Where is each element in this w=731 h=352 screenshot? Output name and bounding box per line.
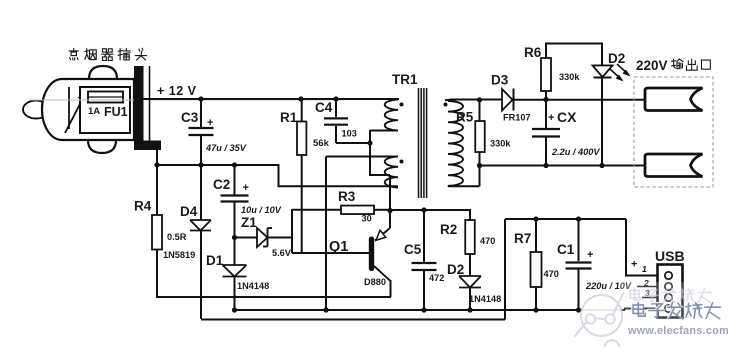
usb pin contact 2 bbox=[665, 283, 672, 290]
wire LED cathode drop bbox=[601, 78, 603, 166]
transistor Q1 collector lead with arrow bbox=[375, 228, 390, 241]
wire D2 bottom lead bbox=[469, 288, 471, 311]
transformer TR1 feedback winding bbox=[385, 157, 398, 188]
wire R7 top lead bbox=[535, 219, 537, 252]
wire usb section column bbox=[504, 219, 506, 320]
capacitor CX bbox=[532, 128, 560, 130]
resistor R4 bbox=[152, 215, 162, 250]
svg-text:10u / 10V: 10u / 10V bbox=[241, 205, 282, 215]
diode D2 small signal bbox=[459, 275, 481, 277]
svg-text:+: + bbox=[548, 112, 554, 124]
svg-text:FU1: FU1 bbox=[104, 105, 128, 119]
junction C2 top bbox=[232, 162, 237, 167]
wire C1 top lead bbox=[578, 219, 580, 261]
wire R1 bottom lead bbox=[301, 155, 303, 253]
wire C4 top lead bbox=[335, 99, 337, 117]
junction C5 top bbox=[421, 207, 426, 212]
watermark ghost glyphs bbox=[630, 288, 641, 300]
wire D4 top lead bbox=[200, 165, 202, 220]
svg-text:1N4148: 1N4148 bbox=[469, 294, 501, 304]
polarity dot feedback bbox=[400, 160, 404, 164]
wire R4 top lead bbox=[156, 165, 158, 215]
svg-text:TR1: TR1 bbox=[392, 72, 418, 87]
svg-text:C5: C5 bbox=[404, 242, 422, 257]
svg-text:+: + bbox=[587, 249, 593, 261]
svg-text:D1: D1 bbox=[206, 253, 224, 268]
transformer TR1 primary winding bbox=[385, 100, 398, 131]
capacitor C5 bbox=[412, 262, 437, 264]
svg-text:www.elecfans.com: www.elecfans.com bbox=[627, 325, 729, 337]
resistor R2 bbox=[465, 220, 475, 254]
plug top spring bump bbox=[89, 66, 117, 79]
svg-text:+: + bbox=[243, 182, 249, 194]
wire secondary top stub bbox=[445, 99, 450, 101]
wire C3 top lead bbox=[200, 99, 202, 127]
usb pin contact 1 bbox=[665, 272, 672, 279]
plug body bbox=[42, 79, 134, 140]
wire R3 left lead bbox=[292, 209, 341, 211]
plug internal contact arrow bbox=[68, 87, 70, 129]
svg-text:C2: C2 bbox=[213, 177, 230, 192]
wire tap to primary top winding bbox=[369, 130, 371, 143]
diode D1 bbox=[223, 264, 247, 266]
resistor R5 bbox=[475, 121, 485, 152]
junction R1 top bbox=[298, 96, 303, 101]
wire secondary to D3 bbox=[450, 99, 502, 101]
junction R6 CX top bbox=[543, 97, 548, 102]
outlet socket 2 bbox=[645, 154, 703, 177]
polarity dot secondary bbox=[444, 103, 448, 107]
capacitor C2 bbox=[221, 194, 249, 196]
junction C5 bottom bbox=[421, 307, 426, 312]
svg-text:R4: R4 bbox=[134, 199, 152, 214]
plug bottom spring bump bbox=[88, 140, 116, 153]
svg-text:C3: C3 bbox=[181, 110, 199, 125]
wire R5 bottom lead bbox=[479, 152, 481, 166]
faint scan hairline through plug bbox=[30, 99, 134, 101]
svg-text:56k: 56k bbox=[313, 138, 330, 149]
wire feedback top row bbox=[326, 156, 398, 158]
wire D1 top lead bbox=[234, 238, 236, 266]
wire collector row bbox=[390, 209, 470, 211]
wire R4 bottom lead bbox=[156, 250, 158, 299]
wire C1 bottom lead bbox=[578, 269, 580, 310]
zener diode Z1 bbox=[257, 228, 268, 247]
wire R1 body to base bbox=[301, 99, 303, 122]
wire usb top row bbox=[505, 218, 626, 220]
wire C3 bottom lead bbox=[200, 136, 202, 165]
watermark haze bbox=[620, 282, 731, 342]
wire tap to collector column bbox=[369, 174, 390, 176]
wire to feedback winding bottom bbox=[278, 185, 399, 187]
svg-text:0.5R: 0.5R bbox=[167, 232, 187, 242]
svg-text:47u / 35V: 47u / 35V bbox=[205, 143, 247, 153]
svg-text:1A: 1A bbox=[88, 106, 100, 117]
wire C2 top lead bbox=[234, 165, 236, 195]
svg-text:R3: R3 bbox=[338, 189, 356, 204]
wire base row bbox=[292, 252, 369, 254]
wire R5 top lead bbox=[479, 100, 481, 121]
wire Z1 anode lead bbox=[235, 237, 258, 239]
junction C1 bottom bbox=[576, 307, 581, 312]
junction collector node bbox=[387, 208, 392, 213]
svg-text:1N5819: 1N5819 bbox=[163, 250, 195, 260]
capacitor C3 bbox=[189, 127, 214, 129]
wire usb 5V drop bbox=[626, 219, 658, 276]
junction R7 top bbox=[533, 216, 538, 221]
svg-text:D4: D4 bbox=[180, 204, 198, 219]
wire R3 right lead bbox=[374, 209, 390, 211]
junction C3 top bbox=[198, 96, 203, 101]
junction R7 bottom bbox=[533, 307, 538, 312]
junction C1 top bbox=[576, 216, 581, 221]
junction zener node bbox=[232, 235, 237, 240]
plug center electrode bar bbox=[134, 66, 144, 150]
transformer TR1 secondary winding bbox=[448, 101, 463, 186]
watermark text 电子发烧友 bbox=[633, 302, 645, 316]
plug tip contact bbox=[23, 101, 49, 119]
svg-text:CX: CX bbox=[557, 109, 577, 125]
resistor R6 bbox=[541, 58, 551, 91]
wire R5 to secondary bottom bbox=[479, 166, 481, 187]
svg-text:R1: R1 bbox=[280, 110, 298, 125]
svg-text:D2: D2 bbox=[608, 51, 625, 66]
svg-text:220V: 220V bbox=[636, 58, 668, 73]
label 点烟器插头 (cigarette lighter plug) bbox=[69, 49, 78, 60]
wire ground rail lower bbox=[201, 319, 505, 321]
LED D2 bbox=[593, 65, 613, 67]
outlet socket 1 bbox=[645, 88, 703, 111]
watermark text 电子发烧友 emboss bbox=[632, 302, 644, 316]
svg-text:FR107: FR107 bbox=[503, 113, 531, 123]
junction C3 bottom bbox=[198, 162, 203, 167]
svg-text:330k: 330k bbox=[490, 139, 511, 149]
wire usb ground stub bbox=[625, 309, 658, 311]
wire +12V rail bbox=[143, 98, 399, 100]
wire emitter return bbox=[156, 296, 391, 298]
watermark logo circle bbox=[581, 295, 622, 336]
plug ground side contact foot bbox=[134, 141, 161, 151]
junction output low node bbox=[477, 163, 482, 168]
svg-text:R6: R6 bbox=[524, 45, 542, 60]
junction D2 bottom bbox=[467, 307, 472, 312]
svg-text:C4: C4 bbox=[315, 100, 333, 115]
capacitor C1 bbox=[566, 261, 592, 263]
usb connector body bbox=[658, 265, 683, 318]
diode D4 bbox=[190, 219, 211, 221]
wire C2 bottom lead bbox=[234, 202, 236, 238]
usb pin contact 3 bbox=[665, 294, 672, 301]
diode D3 bbox=[502, 89, 513, 111]
wire R7 bottom lead bbox=[535, 287, 537, 310]
svg-text:30: 30 bbox=[362, 214, 372, 224]
svg-text:1N4148: 1N4148 bbox=[237, 281, 269, 291]
svg-text:D2: D2 bbox=[447, 262, 464, 277]
wire output low rail bbox=[480, 165, 646, 167]
resistor R1 bbox=[297, 122, 306, 156]
wire feedback ground column bbox=[325, 157, 327, 311]
svg-text:D3: D3 bbox=[491, 73, 509, 88]
wire emitter drop bbox=[390, 280, 392, 297]
svg-text:D880: D880 bbox=[364, 277, 386, 287]
transistor Q1 emitter lead bbox=[374, 266, 391, 281]
wire C5 top lead bbox=[423, 210, 425, 262]
svg-text:+ 12 V: + 12 V bbox=[157, 84, 197, 98]
junction feedback column bottom bbox=[323, 307, 328, 312]
svg-text:R2: R2 bbox=[440, 222, 457, 237]
svg-text:+: + bbox=[631, 259, 637, 271]
svg-text:5.6V: 5.6V bbox=[272, 248, 292, 258]
svg-text:103: 103 bbox=[342, 129, 357, 139]
wire mid rail drop bbox=[278, 164, 280, 186]
svg-text:Q1: Q1 bbox=[329, 239, 348, 255]
svg-text:472: 472 bbox=[429, 273, 444, 283]
wire mid rail bbox=[157, 164, 278, 166]
usb pin 2 stub bbox=[637, 286, 658, 288]
junction CX bottom bbox=[543, 163, 548, 168]
svg-text:2.2u / 400V: 2.2u / 400V bbox=[551, 147, 600, 157]
transformer core bbox=[418, 88, 420, 198]
svg-text:Z1: Z1 bbox=[241, 215, 257, 230]
wire base column bbox=[291, 209, 293, 253]
faint scan hairline right of plug bbox=[150, 99, 345, 101]
wire C4 to tap node bbox=[336, 142, 370, 144]
dashed outlet box bbox=[634, 77, 713, 187]
wire secondary bottom stub bbox=[447, 185, 449, 188]
plug electrode side plate bbox=[149, 66, 151, 150]
svg-text:R7: R7 bbox=[514, 231, 531, 246]
capacitor C4 bbox=[324, 117, 348, 119]
wire R6 top bracket bbox=[546, 44, 602, 66]
fuse FU1 1A bbox=[88, 92, 123, 103]
wire Z1 cathode lead bbox=[268, 237, 293, 239]
wire R6 bottom lead bbox=[545, 91, 547, 100]
wire D1 bottom lead bbox=[234, 277, 236, 311]
junction plug ground / R4 bbox=[154, 162, 159, 167]
junction D1 bottom bbox=[232, 307, 237, 312]
resistor R7 bbox=[531, 252, 542, 287]
wire C5 bottom lead bbox=[423, 270, 425, 310]
wire collector column bbox=[389, 175, 391, 228]
wire R2 top lead bbox=[469, 209, 471, 220]
svg-text:USB: USB bbox=[655, 248, 685, 264]
wire D4 to lower rail bbox=[200, 231, 202, 320]
svg-text:+: + bbox=[207, 117, 213, 129]
fuse holder frame bbox=[80, 87, 130, 133]
wire CX top lead bbox=[545, 100, 547, 129]
resistor R3 bbox=[341, 206, 374, 215]
svg-text:C1: C1 bbox=[557, 242, 575, 257]
polarity dot primary bbox=[400, 103, 404, 107]
junction primary tap node bbox=[367, 140, 372, 145]
LED arrows bbox=[610, 69, 622, 80]
junction C4 top bbox=[333, 96, 338, 101]
usb pin 3 stub bbox=[642, 297, 658, 299]
wire CX bottom lead bbox=[545, 137, 547, 166]
wire ground rail upper bbox=[235, 309, 626, 311]
wire plug ground drop bbox=[156, 149, 158, 165]
wire C4 bottom lead bbox=[335, 126, 337, 143]
junction LED bottom bbox=[599, 163, 604, 168]
wire R2 bottom lead bbox=[469, 254, 471, 276]
wire D3 cathode row bbox=[514, 99, 646, 101]
usb pin contact 4 bbox=[665, 305, 672, 312]
svg-text:470: 470 bbox=[544, 269, 559, 279]
wire tap down bbox=[369, 143, 371, 175]
transistor Q1 base bar bbox=[369, 237, 374, 272]
junction R5 top bbox=[477, 97, 482, 102]
svg-text:R5: R5 bbox=[456, 110, 474, 125]
svg-text:1: 1 bbox=[642, 264, 647, 274]
svg-text:330k: 330k bbox=[559, 72, 580, 82]
svg-text:470: 470 bbox=[480, 236, 495, 246]
